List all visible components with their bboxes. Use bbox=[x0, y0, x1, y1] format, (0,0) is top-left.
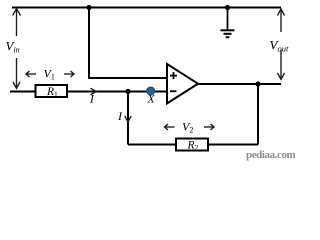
svg-text:X: X bbox=[147, 94, 156, 106]
Vin measurement arrow (double-headed, broken by label) bbox=[13, 9, 21, 89]
current arrow I down feedback branch bbox=[117, 109, 131, 123]
V2 measurement label with arrows bbox=[165, 120, 215, 135]
op-amp U1 bbox=[167, 64, 198, 103]
svg-text:V2: V2 bbox=[182, 120, 193, 135]
svg-text:I: I bbox=[89, 94, 95, 106]
svg-text:I: I bbox=[117, 109, 123, 123]
resistor R2 bbox=[176, 139, 208, 153]
junction: output node to feedback bbox=[255, 81, 260, 86]
wire: op-amp output bbox=[198, 83, 281, 85]
resistor R1 bbox=[36, 85, 68, 99]
wire: feedback right vertical bbox=[257, 84, 259, 145]
wire: rail down and over to op-amp + input bbox=[89, 8, 167, 79]
svg-text:V1: V1 bbox=[44, 67, 55, 82]
junction: top rail to non-inverting input feed bbox=[86, 5, 91, 10]
V1 measurement label with arrows bbox=[26, 67, 74, 82]
svg-text:Vin: Vin bbox=[6, 39, 20, 55]
wire: input wire from source through R1 to inverting input bbox=[10, 91, 167, 93]
wire: feedback left vertical from node X branch bbox=[127, 92, 129, 145]
ground symbol bbox=[221, 8, 235, 38]
wire: top ground rail bbox=[12, 7, 281, 9]
svg-text:Vout: Vout bbox=[270, 38, 289, 54]
junction: top rail to ground bbox=[225, 5, 230, 10]
Vout measurement arrow (double-headed, broken by label) bbox=[278, 9, 285, 80]
current arrow I into node X bbox=[89, 88, 96, 105]
wire: feedback bottom through R2 bbox=[128, 144, 258, 146]
node X (highlighted) bbox=[147, 87, 155, 95]
svg-text:pediaa.com: pediaa.com bbox=[246, 149, 296, 161]
junction: inverting node to feedback branch bbox=[125, 89, 130, 94]
